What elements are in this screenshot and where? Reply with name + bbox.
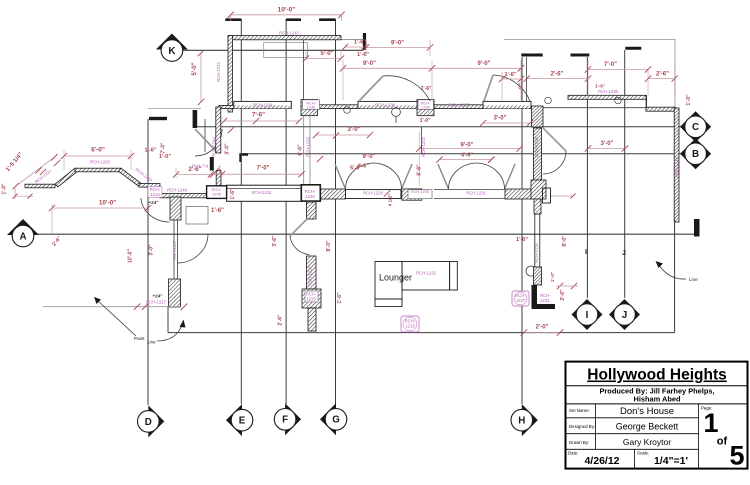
svg-text:Paint: Paint [134,336,145,341]
fixture: wall box right room [543,188,551,203]
column pier RCH-1228 box [301,185,320,201]
svg-text:1226: 1226 [306,297,316,302]
wall: porch step left segment [25,184,55,188]
wall: left corridor wall lower hatched [216,171,221,186]
svg-text:1'-6": 1'-6" [354,40,366,46]
svg-text:E: E [239,416,246,427]
svg-text:9'-0": 9'-0" [391,41,404,47]
wall: header bar over J line [625,47,641,50]
svg-text:Hisham Abed: Hisham Abed [634,394,681,403]
svg-text:1227: 1227 [516,298,526,303]
column pier RCH-1240 [301,100,317,116]
svg-text:3'-0": 3'-0" [494,116,507,122]
svg-text:Gary Kroytor: Gary Kroytor [623,437,671,447]
svg-text:+24": +24" [153,294,163,299]
svg-text:5'-6": 5'-6" [350,166,362,172]
door arc: pantry door left [141,198,170,222]
furniture: upper room rect [264,43,308,58]
svg-text:Hollywood Heights: Hollywood Heights [587,367,727,384]
column pier upper left (+24) [170,197,181,220]
svg-text:1'-6": 1'-6" [595,84,605,89]
node A marker [7,219,39,235]
svg-text:I: I [585,249,587,256]
svg-text:2'-6": 2'-6" [551,72,564,78]
wire: B corner stub [241,155,249,163]
svg-text:RCH-1238: RCH-1238 [375,102,395,107]
svg-text:9'-0": 9'-0" [478,61,491,67]
svg-text:1245: 1245 [212,192,222,197]
svg-text:1: 1 [703,408,718,438]
svg-text:Don's House: Don's House [620,406,674,417]
wall: west wing wall low [308,308,316,331]
node B marker [680,138,711,169]
svg-text:3'-0": 3'-0" [149,244,155,256]
wall: porch diagonal left [55,168,78,187]
fixture: ceiling symbol 2 [344,107,351,114]
svg-text:3'-6": 3'-6" [272,235,278,247]
node C marker [680,111,711,142]
fixture circle central [526,266,536,276]
wall: header bar over H line [521,54,542,57]
wall: black horizontal bar at D [149,117,167,120]
svg-text:F: F [282,415,288,426]
svg-text:1'-0": 1'-0" [159,154,171,160]
svg-text:Lounger: Lounger [379,273,412,283]
svg-text:1'-0": 1'-0" [420,118,431,124]
wall: left corridor wall hatched (x218) [216,107,221,153]
wall: porch top segment RCH-1220 [75,168,121,172]
wire: right wing inner wall line [543,107,674,109]
svg-text:RCH-1233: RCH-1233 [306,136,311,156]
svg-text:1239: 1239 [421,105,429,109]
svg-text:Date:: Date: [568,451,579,456]
svg-text:8'-0": 8'-0" [562,235,568,247]
svg-text:5'-0": 5'-0" [192,62,198,75]
wire: grid line D [147,119,149,405]
label RCH-1218 box [148,187,162,198]
wall: corridor north wall segments [219,105,234,108]
wall: porch right segment [139,184,160,188]
wall: top-right wall hatched [568,95,646,99]
svg-text:9'-0": 9'-0" [461,143,474,149]
svg-text:RCH-1220: RCH-1220 [90,160,110,165]
svg-text:Line: Line [147,340,156,345]
dimension stray ticks [384,190,390,196]
svg-text:7'-0": 7'-0" [257,166,270,172]
svg-text:B: B [692,149,699,160]
wall: upper room top hatched [228,36,341,40]
svg-text:Drawn By:: Drawn By: [569,440,589,445]
svg-text:10'-0": 10'-0" [278,7,296,14]
door arc: corridor door at x 483-530 [484,75,493,101]
wire: inner vertical pair below [303,109,305,188]
wire: wall face line left stub [148,107,201,109]
svg-text:H: H [518,416,525,427]
svg-text:Scale:: Scale: [637,451,649,456]
wall: central L bottom [532,285,556,309]
wire: extension lines [51,204,53,233]
svg-text:RCH-1237: RCH-1237 [449,102,469,107]
wall: west wing wall upper [307,202,317,219]
wire: grid line B (horizontal) [241,153,682,155]
wall: south wall row hatched [160,194,207,198]
wire: grid line F [285,19,287,404]
wire: grid line K [183,49,363,51]
svg-text:C: C [692,122,699,133]
furniture: lounger sectional [375,262,402,300]
door arc: below A line left [177,234,208,263]
node D marker [148,405,164,437]
svg-text:RCH-1243: RCH-1243 [279,30,299,35]
wire: grid line J [624,50,626,298]
svg-text:1'-6": 1'-6" [357,52,369,58]
title block frame [566,362,748,471]
svg-text:RCH-1227: RCH-1227 [308,265,313,285]
svg-text:RCH-1225: RCH-1225 [416,271,436,276]
svg-text:1240: 1240 [307,105,315,109]
svg-text:1'-6": 1'-6" [144,148,156,154]
dimension tick corridor [228,127,234,133]
svg-text:1'-6": 1'-6" [504,72,516,78]
fixture: ceiling symbol 1 [392,108,401,117]
svg-text:1/4"=1': 1/4"=1' [654,455,688,467]
label RCH-1226 box pier [305,291,318,302]
wall: black stub right of upper room [363,33,366,50]
wall: black bar left of corridor [210,157,214,171]
wall: porch diagonal right [119,168,143,187]
wall: header bar over I line [571,54,590,57]
svg-text:7'-6": 7'-6" [252,113,265,119]
svg-text:4'-6": 4'-6" [461,153,473,159]
node I marker [572,299,603,330]
svg-text:RCH-1243: RCH-1243 [675,156,680,176]
svg-text:1228: 1228 [305,194,315,199]
svg-text:George Beckett: George Beckett [616,422,679,432]
svg-text:1232: 1232 [540,298,550,303]
leader: line arrow right [659,265,686,279]
svg-text:4 1/2": 4 1/2" [388,194,394,207]
svg-text:Line: Line [689,277,698,282]
svg-text:9": 9" [519,83,525,89]
svg-text:10'-0": 10'-0" [128,248,134,263]
column pier RCH-1226 [302,289,321,308]
svg-text:1'-6": 1'-6" [337,292,343,304]
svg-text:9'-0": 9'-0" [363,154,376,160]
door arc: central hall door [543,128,566,151]
wire: wall line below H header [526,57,528,101]
svg-text:6'-6": 6'-6" [298,144,304,156]
svg-text:4/26/12: 4/26/12 [584,455,619,467]
node F marker [285,403,301,435]
wall: central wall mid hatched [534,128,542,198]
svg-text:1'-0": 1'-0" [686,94,692,106]
wall: central wall low hatched [534,267,542,285]
column pier lower left (+24) [169,279,181,307]
svg-text:RCH-1231: RCH-1231 [466,191,486,196]
svg-text:RCH-7?g: RCH-7?g [192,164,208,168]
svg-text:1'-0": 1'-0" [516,237,528,243]
wall: top dashed header segments [225,18,241,21]
svg-text:RCH-1230: RCH-1230 [411,190,429,194]
svg-text:A: A [19,231,26,242]
svg-text:RCH-1236: RCH-1236 [598,89,618,94]
wall: RCH-1224 low wall [227,185,302,201]
wire: upper room inner vertical [303,39,305,101]
wall: west wing wall mid [307,256,317,289]
wall: right side hatched wall [674,108,679,222]
svg-text:1'-6": 1'-6" [211,208,224,214]
wall: central thick wall upper [532,106,544,127]
svg-text:+24": +24" [149,200,159,205]
svg-text:RCH-1241: RCH-1241 [253,102,273,107]
label RCH-1219 stamp [401,316,419,332]
svg-text:1219: 1219 [405,324,415,329]
svg-text:5: 5 [729,441,744,471]
wire: grid line G [335,19,337,404]
svg-text:3'-0": 3'-0" [601,141,614,147]
wall: black corner bar left (x193) [193,110,198,128]
svg-text:RCH-1242: RCH-1242 [216,61,221,81]
svg-text:7'-0": 7'-0" [604,62,617,68]
door arc: west wing door [290,219,307,236]
svg-text:1'-4": 1'-4" [550,272,556,282]
svg-text:121a: 121a [150,192,160,197]
wall: upper room left hatched [228,36,233,112]
wire: left terrace line [43,306,181,308]
door arc: left entry door [195,129,216,151]
dimension ticks porch [40,169,46,175]
wire: patio bottom outline [168,332,675,334]
svg-text:RCH-1244: RCH-1244 [212,136,217,156]
column pier RCH-1239 [417,100,434,116]
svg-text:RCH-1235: RCH-1235 [534,136,539,156]
wire: grid line C (horizontal) [196,126,682,128]
svg-text:8'-0": 8'-0" [326,240,332,252]
node K marker [156,34,188,50]
svg-text:of: of [717,436,728,448]
wire: thin roof line upper [341,39,364,41]
label RCH-1227 stamp [512,291,529,306]
svg-text:D: D [145,417,152,428]
wire: pier stub lines [173,220,175,279]
svg-text:1'-6": 1'-6" [421,86,432,92]
svg-text:6'-6": 6'-6" [417,164,423,176]
wire: grid line H [521,57,523,404]
door arc: french doors pair 1 [335,164,346,189]
svg-text:3'-0": 3'-0" [225,143,231,155]
svg-text:RCH-1226: RCH-1226 [534,242,539,262]
wire: grid line A [34,233,695,235]
svg-text:1'-6": 1'-6" [230,188,236,200]
svg-text:Designed By:: Designed By: [569,424,595,429]
svg-text:10'-0": 10'-0" [99,200,116,207]
svg-text:2'-0": 2'-0" [536,325,549,331]
svg-text:G: G [332,415,340,426]
furniture: closet rect left [186,207,208,225]
svg-text:3'-0": 3'-0" [348,127,361,133]
node E marker [226,404,242,436]
wall: RCH-1245 block [207,186,227,199]
wire: grid line I [586,57,588,298]
svg-text:7'-0": 7'-0" [161,142,167,154]
wire: jamb line x421 [421,127,423,154]
node J marker [609,299,640,330]
svg-text:RCH-1247: RCH-1247 [172,239,177,259]
leader: paint line arrow [96,299,136,336]
svg-text:J: J [622,250,626,257]
svg-text:K: K [168,46,175,57]
svg-text:9'-0": 9'-0" [363,61,376,67]
wire: grid line E [240,19,242,404]
svg-text:RCH-1224: RCH-1224 [252,190,272,195]
fixture: ceiling symbol 4 [615,97,622,104]
svg-text:J: J [622,310,627,321]
svg-text:2'-6": 2'-6" [656,72,669,78]
wire: threshold lines [434,189,507,191]
svg-text:I: I [586,310,589,321]
svg-text:2'-6": 2'-6" [278,314,284,326]
svg-text:Set Name:: Set Name: [569,408,590,413]
svg-text:RCH-1248: RCH-1248 [167,188,187,193]
svg-text:5'-0": 5'-0" [321,51,334,57]
svg-text:6'-0": 6'-0" [91,147,105,154]
column pier RCH-1230hatch [402,189,422,200]
node H marker [522,404,538,436]
column pier central [531,180,546,199]
svg-text:RCH-1229: RCH-1229 [363,191,383,196]
door arc: upper room double door [359,76,383,101]
door arc: french doors pair 2 [438,164,449,189]
wall: central wall cavity [535,214,540,267]
svg-text:1'-0": 1'-0" [2,183,8,195]
node G marker [320,403,336,435]
svg-text:2'-0": 2'-0" [560,289,566,301]
table grid [595,404,597,449]
svg-text:RCH-1217: RCH-1217 [146,300,166,305]
wall: top-right step wall [646,107,675,111]
fixture: ceiling symbol 3 [545,97,552,104]
wall: black corner bar right [694,219,700,237]
